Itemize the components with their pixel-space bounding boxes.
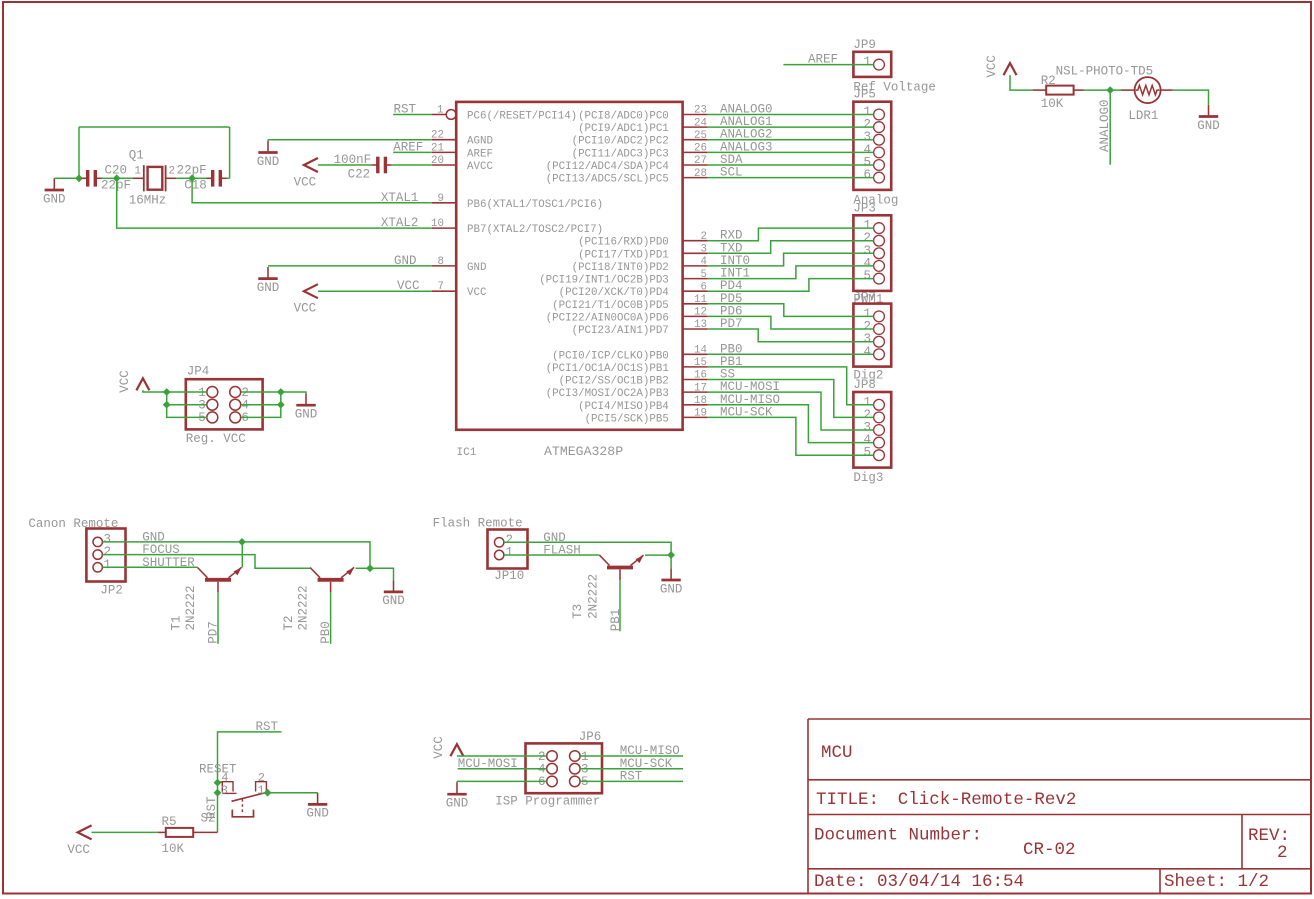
svg-text:JP6: JP6 — [579, 730, 602, 744]
wire VCC to R2 — [1010, 75, 1033, 90]
IC1 pin 18 stub — [683, 395, 708, 407]
wire node to crystal — [117, 177, 133, 179]
svg-text:2N2222: 2N2222 — [297, 585, 311, 630]
junction — [277, 401, 285, 409]
svg-text:5: 5 — [198, 411, 206, 425]
IC1 pin 2 stub — [683, 231, 708, 243]
ground (crystal) — [43, 178, 66, 206]
svg-text:(PCI16/RXD)PD0: (PCI16/RXD)PD0 — [578, 237, 669, 249]
resistor R5 labels — [162, 815, 185, 856]
wire net to JP5 pin 3 — [708, 139, 874, 141]
svg-text:RESET: RESET — [199, 762, 237, 776]
svg-text:5: 5 — [581, 775, 589, 789]
svg-text:2: 2 — [1277, 843, 1288, 863]
wire net to JP3 pin 1 — [708, 228, 874, 241]
LDR LDR1 NSL-PHOTO-TD5 — [1121, 77, 1173, 103]
IC1 pin 8 stub — [432, 256, 456, 268]
svg-text:(PCI19/INT1/OC2B)PD3: (PCI19/INT1/OC2B)PD3 — [539, 275, 669, 287]
svg-text:GND: GND — [660, 582, 683, 596]
svg-text:100nF: 100nF — [334, 153, 372, 167]
IC1 pin 17 stub — [683, 382, 708, 394]
wire net to JP7 pin 2 — [708, 316, 874, 329]
junction — [214, 789, 222, 797]
svg-text:PC6(/RESET/PCI14): PC6(/RESET/PCI14) — [467, 111, 577, 123]
svg-text:10K: 10K — [162, 842, 185, 856]
wire net to JP8 pin 1 — [708, 367, 874, 405]
svg-text:1: 1 — [863, 55, 871, 69]
svg-text:ANALOG0: ANALOG0 — [1098, 99, 1112, 152]
wire net RST — [218, 732, 282, 833]
junction — [238, 538, 246, 546]
svg-text:11: 11 — [694, 294, 707, 306]
title block TITLE row — [816, 790, 1076, 810]
svg-text:(PCI2/SS/OC1B)PB2: (PCI2/SS/OC1B)PB2 — [559, 376, 669, 388]
svg-text:VCC: VCC — [397, 279, 420, 293]
svg-text:Click-Remote-Rev2: Click-Remote-Rev2 — [898, 790, 1077, 810]
resistor R2 — [1046, 86, 1073, 95]
svg-text:5: 5 — [701, 269, 707, 281]
svg-text:SHUTTER: SHUTTER — [142, 556, 195, 570]
svg-text:JP9: JP9 — [853, 38, 876, 52]
svg-text:Canon Remote: Canon Remote — [28, 517, 118, 531]
wire net PD7 — [217, 592, 219, 644]
transistor T1 2N2222 NPN — [198, 567, 242, 592]
wire net to JP3 pin 4 — [708, 266, 874, 279]
wire net to JP5 pin 2 — [708, 126, 874, 128]
svg-text:Flash Remote: Flash Remote — [433, 516, 523, 530]
svg-text:17: 17 — [694, 382, 707, 394]
IC1 pin 15 stub — [683, 357, 708, 369]
wire net to JP8 pin 5 — [708, 417, 874, 455]
svg-text:AREF: AREF — [393, 140, 423, 154]
wire crystal left riser — [78, 127, 80, 178]
svg-text:C18: C18 — [184, 179, 207, 193]
junction — [163, 388, 171, 396]
IC1 pin 24 stub — [683, 117, 708, 129]
svg-text:IC1: IC1 — [457, 447, 477, 459]
svg-text:1: 1 — [134, 166, 141, 178]
svg-text:FLASH: FLASH — [543, 544, 581, 558]
IC1 pin 5 stub — [683, 269, 708, 281]
svg-text:1: 1 — [257, 783, 264, 797]
svg-text:(PCI1/OC1A/OC1S)PB1: (PCI1/OC1A/OC1S)PB1 — [546, 363, 669, 375]
wire net to JP5 pin 6 — [708, 177, 874, 179]
resistor R2 labels — [1041, 74, 1064, 111]
svg-text:JP4: JP4 — [187, 365, 210, 379]
svg-text:C22: C22 — [348, 167, 371, 181]
svg-text:AREF: AREF — [467, 148, 493, 160]
junction — [264, 789, 272, 797]
IC1 pin 12 stub — [683, 307, 708, 319]
wire net to JP7 pin 1 — [708, 304, 874, 317]
IC1 pin 21 stub — [431, 142, 456, 154]
wire T2 emitter link — [356, 567, 371, 569]
T2 labels — [282, 585, 311, 630]
wire net ANALOG0 drop — [1109, 90, 1111, 165]
svg-text:10K: 10K — [1041, 97, 1064, 111]
svg-text:JP5: JP5 — [853, 88, 876, 102]
wire net to JP3 pin 5 — [708, 279, 874, 292]
svg-text:VCC: VCC — [294, 302, 317, 316]
svg-text:20: 20 — [431, 155, 444, 167]
IC1 pin 3 stub — [683, 244, 708, 256]
svg-text:(PCI22/AIN0OC0A)PD6: (PCI22/AIN0OC0A)PD6 — [546, 312, 669, 324]
connector JP8 5-pin header — [853, 378, 891, 485]
transistor T3 2N2222 NPN — [600, 555, 644, 580]
wire net FOCUS — [102, 555, 310, 569]
IC1 pin 4 stub — [683, 256, 708, 268]
wire net to JP8 pin 3 — [708, 392, 874, 430]
IC1 pin 7 stub — [432, 281, 456, 293]
transistor T2 2N2222 NPN — [310, 567, 354, 592]
svg-text:PB7(XTAL2/TOSC2/PCI7): PB7(XTAL2/TOSC2/PCI7) — [467, 224, 603, 236]
capacitor C22 — [372, 157, 392, 174]
wire net to JP7 pin 3 — [708, 329, 874, 342]
junction — [163, 401, 171, 409]
svg-text:10: 10 — [431, 218, 444, 230]
junction XTAL2 node — [113, 174, 121, 182]
wire JP4 pin2 wire — [241, 392, 306, 394]
svg-text:6: 6 — [241, 411, 249, 425]
junction XTAL1 node — [188, 174, 196, 182]
svg-text:VCC: VCC — [67, 843, 90, 857]
wire JP6 pin6 drop — [456, 781, 458, 782]
wire net MCU-SCK — [580, 768, 683, 770]
wire net VCC to C22 — [318, 164, 372, 166]
svg-text:VCC: VCC — [467, 287, 487, 299]
capacitor C22 labels — [334, 153, 372, 181]
wire net GND (flash) — [504, 542, 671, 568]
svg-text:5: 5 — [863, 446, 871, 460]
wire net RST (JP6) — [580, 780, 683, 782]
IC1 pin 22 stub — [431, 130, 456, 142]
LDR1 labels — [1056, 64, 1159, 123]
ground (JP6) — [446, 783, 469, 811]
svg-text:8: 8 — [438, 256, 444, 268]
wire JP4 right bus — [241, 392, 281, 417]
svg-text:(PCI9/ADC1)PC1: (PCI9/ADC1)PC1 — [578, 123, 669, 135]
svg-text:GND: GND — [257, 281, 280, 295]
wire crystal top wire — [79, 126, 230, 128]
svg-text:RST: RST — [256, 720, 279, 734]
T3 labels — [571, 574, 601, 619]
svg-text:VCC: VCC — [985, 55, 999, 78]
svg-text:1: 1 — [104, 558, 112, 572]
ground (canon) — [382, 580, 405, 608]
svg-text:PB0: PB0 — [319, 621, 333, 644]
connector JP5 6-pin header — [853, 88, 898, 208]
IC1 pin 19 stub — [683, 408, 708, 420]
svg-text:22: 22 — [431, 130, 444, 142]
wire S2 to GND — [266, 792, 318, 794]
svg-text:GND: GND — [382, 594, 405, 608]
wire net PB0 — [330, 592, 332, 644]
svg-text:R5: R5 — [162, 815, 177, 829]
wire net to JP3 pin 3 — [708, 253, 874, 266]
wire net PB0 to JP7 pin 4 — [708, 353, 874, 355]
svg-text:27: 27 — [694, 155, 707, 167]
IC1 pin 13 stub — [683, 319, 708, 331]
svg-text:GND: GND — [257, 155, 280, 169]
wire node2 to C18 — [192, 177, 206, 179]
svg-text:RST: RST — [205, 796, 219, 819]
wire JP4 pin3 wire — [167, 404, 207, 406]
wire crystal right riser — [229, 127, 231, 178]
svg-text:7: 7 — [438, 281, 444, 293]
ground (LDR) — [1197, 105, 1220, 133]
IC1 pin 10 stub — [431, 218, 456, 230]
svg-text:CR-02: CR-02 — [1023, 840, 1076, 860]
IC1 pin 28 stub — [683, 168, 708, 180]
IC1 pin 25 stub — [683, 130, 708, 142]
wire crystal to node2 — [176, 177, 192, 179]
svg-text:1: 1 — [437, 105, 443, 117]
svg-text:16: 16 — [694, 370, 707, 382]
wire net MCU-MOSI — [458, 768, 547, 770]
svg-text:R2: R2 — [1041, 74, 1056, 88]
wire net GND (canon) — [102, 542, 393, 580]
svg-text:JP7: JP7 — [853, 291, 876, 305]
svg-text:Date: 03/04/14 16:54: Date: 03/04/14 16:54 — [814, 872, 1024, 892]
svg-text:3: 3 — [701, 244, 707, 256]
connector JP4 Reg. VCC 6-pin header — [186, 365, 263, 446]
junction ANALOG0 node — [1106, 86, 1114, 94]
svg-text:1: 1 — [506, 546, 514, 560]
ground (flash) — [660, 568, 683, 596]
svg-text:GND: GND — [295, 408, 318, 422]
wire T1 emitter drop — [241, 542, 243, 568]
svg-text:VCC: VCC — [432, 736, 446, 759]
VCC symbol (LDR) — [985, 55, 1017, 78]
svg-text:4: 4 — [701, 256, 707, 268]
op-amp/IC IC1 ATMEGA328P body — [456, 102, 682, 430]
svg-text:3: 3 — [221, 783, 228, 797]
svg-text:Document Number:: Document Number: — [814, 826, 982, 846]
svg-text:LDR1: LDR1 — [1128, 109, 1158, 123]
svg-text:25: 25 — [694, 130, 707, 142]
svg-text:5: 5 — [863, 269, 871, 283]
svg-text:Q1: Q1 — [129, 149, 144, 163]
svg-text:PB6(XTAL1/TOSC1/PCI6): PB6(XTAL1/TOSC1/PCI6) — [467, 199, 603, 211]
wire LDR to GND — [1173, 90, 1209, 105]
svg-text:(PCI21/T1/OC0B)PD5: (PCI21/T1/OC0B)PD5 — [552, 300, 669, 312]
wire net to JP5 pin 5 — [708, 164, 874, 166]
svg-text:6: 6 — [863, 168, 871, 182]
wire net to JP8 pin 2 — [708, 380, 874, 418]
svg-text:13: 13 — [694, 319, 707, 331]
svg-text:14: 14 — [694, 345, 707, 357]
svg-text:24: 24 — [694, 117, 707, 129]
junction — [366, 564, 374, 572]
wire VCC to R5 — [92, 831, 159, 833]
svg-text:ISP Programmer: ISP Programmer — [495, 795, 600, 809]
junction — [75, 174, 83, 182]
crystal Q1 16MHz — [133, 165, 176, 191]
wire crystal gnd wire — [54, 177, 79, 179]
switch S2 RESET pushbutton — [218, 771, 267, 817]
svg-text:T1: T1 — [170, 615, 184, 630]
wire C18 to riser — [227, 177, 230, 179]
junction — [214, 779, 222, 787]
svg-text:GND: GND — [467, 262, 486, 274]
wire net to JP5 pin 4 — [708, 151, 874, 153]
svg-text:TITLE:: TITLE: — [816, 790, 879, 810]
svg-text:VCC: VCC — [294, 175, 317, 189]
wire VCC to JP6 pin2 — [457, 755, 547, 757]
svg-text:PB1: PB1 — [609, 609, 623, 632]
wire net PB1 — [619, 580, 621, 631]
wire net FLASH — [504, 554, 600, 556]
wire R2 to node — [1084, 89, 1121, 91]
svg-text:2: 2 — [701, 231, 707, 243]
svg-text:GND: GND — [43, 192, 66, 206]
svg-text:JP8: JP8 — [853, 378, 876, 392]
svg-text:(PCI13/ADC5/SCL)PC5: (PCI13/ADC5/SCL)PC5 — [546, 174, 669, 186]
wire net GND pin 8 — [268, 265, 432, 267]
svg-text:JP2: JP2 — [100, 584, 123, 598]
VCC symbol (JP6) — [432, 736, 464, 759]
wire net AGND — [268, 139, 432, 141]
svg-text:18: 18 — [694, 395, 707, 407]
wire net to JP3 pin 2 — [708, 241, 874, 254]
svg-text:(PCI5/SCK)PB5: (PCI5/SCK)PB5 — [585, 413, 669, 425]
svg-text:6: 6 — [701, 281, 707, 293]
wire net RST — [393, 114, 431, 116]
crystal Q1 labels — [129, 149, 175, 208]
ground (pin 8) — [257, 267, 280, 295]
svg-text:NSL-PHOTO-TD5: NSL-PHOTO-TD5 — [1056, 64, 1154, 78]
svg-text:T2: T2 — [282, 615, 296, 630]
svg-text:JP3: JP3 — [853, 201, 876, 215]
svg-text:(PCI23/AIN1)PD7: (PCI23/AIN1)PD7 — [572, 325, 669, 337]
connector JP2 Canon Remote 3-pin header — [86, 529, 125, 598]
wire net to JP8 pin 4 — [708, 405, 874, 443]
wire net AGND drop — [267, 140, 269, 141]
wire net C22 to AVCC pin — [392, 164, 432, 166]
svg-text:15: 15 — [694, 357, 707, 369]
svg-text:AVCC: AVCC — [467, 161, 493, 173]
svg-text:ATMEGA328P: ATMEGA328P — [544, 444, 623, 459]
title block frame — [808, 719, 1311, 893]
title block date row — [814, 872, 1269, 892]
IC1 pin 1 stub — [432, 105, 456, 120]
svg-text:VCC: VCC — [118, 370, 132, 393]
wire net AREF to JP9 — [783, 64, 873, 66]
svg-text:JP10: JP10 — [494, 569, 524, 583]
svg-text:MCU: MCU — [821, 743, 853, 763]
capacitor C18 — [207, 170, 227, 187]
svg-text:RST: RST — [394, 103, 417, 117]
IC1 pin 6 stub — [683, 281, 708, 293]
connector JP10 Flash Remote 2-pin header — [488, 530, 528, 583]
wire net XTAL2 — [117, 178, 432, 228]
svg-text:2N2222: 2N2222 — [587, 574, 601, 619]
wire net SHUTTER — [102, 566, 197, 568]
svg-text:Dig3: Dig3 — [853, 471, 883, 485]
wire T3 emitter link — [645, 554, 671, 556]
svg-text:16MHz: 16MHz — [129, 194, 167, 208]
wire C20 to node — [102, 177, 117, 179]
svg-text:23: 23 — [694, 105, 707, 117]
svg-text:6: 6 — [538, 775, 546, 789]
svg-text:22pF: 22pF — [177, 164, 207, 178]
svg-text:9: 9 — [438, 193, 444, 205]
wire net XTAL1 — [192, 178, 432, 203]
IC1 pin 23 stub — [683, 105, 708, 117]
wire net MCU-MISO — [580, 755, 683, 757]
svg-text:MCU-MOSI: MCU-MOSI — [458, 757, 518, 771]
connector JP9 1-pin header — [853, 38, 936, 95]
svg-text:GND: GND — [446, 797, 469, 811]
title block document number row — [814, 826, 1290, 864]
VCC symbol (pin 7) — [294, 284, 318, 315]
svg-text:(PCI3/MOSI/OC2A)PB3: (PCI3/MOSI/OC2A)PB3 — [546, 388, 669, 400]
IC1 pin 16 stub — [683, 370, 708, 382]
svg-text:4: 4 — [863, 345, 871, 359]
svg-text:RST: RST — [620, 770, 643, 784]
wire JP4 left bus — [167, 392, 207, 417]
junction — [277, 388, 285, 396]
VCC symbol (JP4) — [118, 370, 149, 393]
svg-text:26: 26 — [694, 143, 707, 155]
IC1 pin 14 stub — [683, 345, 708, 357]
svg-text:19: 19 — [694, 408, 707, 420]
ground (AGND) — [257, 141, 280, 169]
ground (JP4) — [295, 394, 318, 422]
capacitor C20 labels — [101, 164, 131, 193]
wire JP4 pin1 wire — [143, 390, 207, 392]
svg-text:12: 12 — [694, 307, 707, 319]
svg-text:2: 2 — [169, 166, 176, 178]
svg-text:(PCI17/TXD)PD1: (PCI17/TXD)PD1 — [578, 249, 669, 261]
wire JP4 pin4 wire — [241, 404, 281, 406]
svg-text:(PCI18/INT0)PD2: (PCI18/INT0)PD2 — [572, 262, 669, 274]
resistor R5 — [166, 828, 193, 837]
ground (S2) — [306, 793, 329, 821]
wire net AREF to pin 21 — [393, 151, 432, 153]
IC1 pin 27 stub — [683, 155, 708, 167]
svg-text:(PCI10/ADC2)PC2: (PCI10/ADC2)PC2 — [572, 136, 669, 148]
svg-text:GND: GND — [306, 807, 329, 821]
svg-text:(PCI20/XCK/T0)PD4: (PCI20/XCK/T0)PD4 — [559, 287, 669, 299]
svg-text:AREF: AREF — [808, 53, 838, 67]
svg-text:AGND: AGND — [467, 136, 493, 148]
capacitor C18 labels — [177, 164, 207, 193]
svg-text:Sheet: 1/2: Sheet: 1/2 — [1164, 872, 1269, 892]
svg-text:(PCI4/MISO)PB4: (PCI4/MISO)PB4 — [578, 401, 669, 413]
capacitor C20 — [82, 170, 102, 187]
wire net VCC pin 7 — [318, 290, 432, 292]
wire JP6 pin6 wire — [457, 780, 547, 782]
VCC symbol (R5) — [67, 825, 91, 856]
IC1 pin 11 stub — [683, 294, 708, 306]
connector JP7 4-pin header — [853, 291, 891, 383]
connector JP3 5-pin header — [853, 201, 891, 306]
svg-text:28: 28 — [694, 168, 707, 180]
svg-text:2N2222: 2N2222 — [184, 585, 198, 630]
IC1 pin 26 stub — [683, 143, 708, 155]
svg-text:GND: GND — [1197, 119, 1220, 133]
svg-text:GND: GND — [394, 254, 417, 268]
IC1 pin 9 stub — [432, 193, 456, 205]
junction — [667, 551, 675, 559]
svg-text:T3: T3 — [571, 604, 585, 619]
svg-text:(PCI12/ADC4/SDA)PC4: (PCI12/ADC4/SDA)PC4 — [546, 161, 669, 173]
IC1 pin 20 stub — [431, 155, 456, 167]
connector JP6 ISP Programmer 2x3 header — [495, 730, 602, 808]
svg-text:PD7: PD7 — [207, 621, 221, 644]
svg-text:21: 21 — [431, 142, 444, 154]
